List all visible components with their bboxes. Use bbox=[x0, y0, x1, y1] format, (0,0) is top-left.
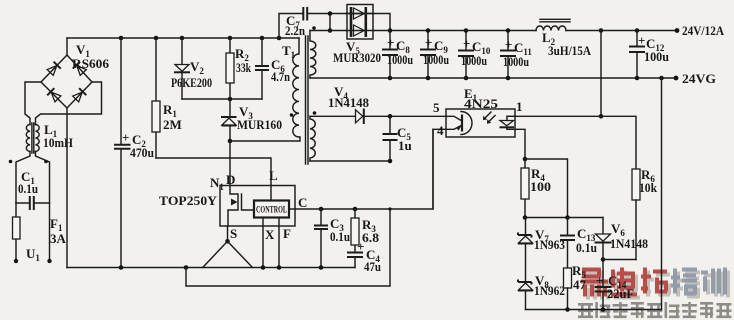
capacitor C10 1000u bbox=[458, 31, 474, 79]
node C9 top bbox=[426, 28, 431, 33]
svg-text:TOP250Y: TOP250Y bbox=[159, 193, 218, 208]
svg-text:C: C bbox=[298, 195, 307, 210]
node: C13 branch bbox=[565, 215, 570, 220]
node: R3 top bbox=[353, 207, 358, 212]
opto phototransistor bbox=[446, 112, 472, 135]
capacitor C14 22uF bbox=[595, 260, 612, 310]
svg-text:6.8: 6.8 bbox=[362, 230, 380, 245]
node: rectified output junction bbox=[388, 28, 393, 33]
svg-text:D: D bbox=[226, 172, 235, 187]
node: V3 top junction bbox=[228, 97, 233, 102]
terminal: AC input left bbox=[14, 259, 18, 263]
bridge diode top-right bbox=[73, 62, 87, 76]
svg-text:0.1u: 0.1u bbox=[330, 229, 350, 244]
svg-text:100: 100 bbox=[530, 179, 551, 194]
transformer T1 primary winding bbox=[293, 38, 299, 137]
capacitor C4 47u electrolytic bbox=[347, 253, 363, 268]
node: link bottom bbox=[328, 28, 333, 33]
opto LED bbox=[483, 112, 514, 129]
wire: secondary top to anode bus bbox=[310, 30, 346, 32]
capacitor C8 1000u bbox=[382, 31, 398, 79]
wire: S leg right bbox=[228, 241, 253, 267]
wire: link between top bus and anode bus bbox=[329, 14, 331, 31]
inductor L2 3uH/15A bbox=[536, 19, 570, 30]
phasing dot choke left bbox=[9, 160, 13, 164]
svg-text:0.1u: 0.1u bbox=[576, 240, 597, 255]
svg-text:100u: 100u bbox=[644, 49, 669, 64]
phasing dot secondary bbox=[312, 26, 316, 30]
wire: ground to 24VG terminal bbox=[637, 77, 676, 79]
node: R5 bottom bbox=[565, 307, 570, 312]
svg-text:1: 1 bbox=[516, 99, 523, 114]
watermark grey slogan line bbox=[578, 302, 731, 318]
wire: secondary ground rail bbox=[310, 77, 637, 79]
inductor L1 common-mode choke left winding bbox=[26, 125, 30, 152]
svg-text:+: + bbox=[463, 36, 470, 51]
node: C2 top on rail bbox=[119, 36, 124, 41]
svg-text:+: + bbox=[425, 35, 432, 50]
wire: C pin bus bbox=[295, 129, 446, 209]
capacitor C1 (X-cap across line) bbox=[16, 196, 50, 210]
svg-text:L: L bbox=[269, 168, 278, 183]
inductor L1 common-mode choke right winding bbox=[36, 125, 40, 152]
diode V6 1N4148 bbox=[595, 218, 612, 260]
wire: bias winding return bbox=[310, 160, 390, 162]
watermark blue-grey text pei xun bbox=[671, 268, 727, 296]
node: opto anode junction bbox=[599, 114, 604, 119]
resistor R2 33k bbox=[226, 38, 234, 99]
wire: drain junction down to D pin bbox=[229, 141, 231, 186]
wire: rectifier to output rail bbox=[374, 30, 536, 32]
TVS V2 P6KE200 bbox=[174, 38, 190, 99]
svg-text:5: 5 bbox=[433, 100, 440, 115]
svg-text:470u: 470u bbox=[130, 145, 154, 160]
terminal 24V/12A bbox=[675, 28, 680, 33]
node C8 bottom bbox=[388, 76, 393, 81]
phasing dot primary bbox=[290, 113, 294, 117]
svg-text:2.2n: 2.2n bbox=[285, 23, 306, 38]
transformer T1 secondary winding bbox=[310, 31, 316, 79]
svg-text:24V/12A: 24V/12A bbox=[682, 23, 725, 38]
zener V7 1N963 bbox=[518, 218, 533, 282]
node: C5 top bbox=[388, 114, 393, 119]
node: S junction bbox=[225, 239, 230, 244]
wire: pin2 cathode out right and down bbox=[507, 129, 525, 159]
node C9 bottom bbox=[426, 76, 431, 81]
optocoupler E1 4N25 box bbox=[446, 109, 515, 137]
wire: opto emitter drop (pin4) bbox=[432, 129, 434, 209]
node: C6 top on rail bbox=[260, 36, 265, 41]
wire: S pin bbox=[227, 226, 229, 241]
terminal: AC input right bbox=[47, 259, 51, 263]
svg-text:3A: 3A bbox=[50, 231, 67, 246]
svg-text:P6KE200: P6KE200 bbox=[171, 75, 212, 90]
svg-text:10k: 10k bbox=[639, 180, 658, 195]
node: C12 top bbox=[635, 28, 640, 33]
svg-text:24VG: 24VG bbox=[682, 71, 716, 86]
svg-text:RS606: RS606 bbox=[72, 56, 110, 71]
svg-text:4.7n: 4.7n bbox=[271, 69, 291, 84]
resistor R3 6.8 bbox=[351, 209, 359, 252]
wire: output rail after L2 bbox=[566, 30, 677, 32]
node: R4 bottom bbox=[523, 215, 528, 220]
node: C3 top bbox=[319, 207, 324, 212]
node: R4 top junction bbox=[523, 157, 528, 162]
svg-text:1u: 1u bbox=[398, 138, 412, 153]
node C11 top bbox=[506, 28, 511, 33]
wire: AC right lead from terminal up to C1 node bbox=[49, 203, 51, 261]
node: R1 top on rail bbox=[154, 36, 159, 41]
bridge rectifier V1 RS606 diamond bbox=[41, 55, 92, 108]
node: X on rail bbox=[261, 265, 266, 270]
svg-text:CONTROL: CONTROL bbox=[256, 205, 287, 215]
svg-text:33k: 33k bbox=[236, 60, 252, 75]
svg-text:+: + bbox=[596, 273, 603, 288]
mosfet Q internal of TOP250Y bbox=[228, 186, 254, 227]
diode V3 MUR160 bbox=[221, 99, 237, 141]
svg-text:+: + bbox=[387, 35, 394, 50]
svg-text:S: S bbox=[230, 226, 237, 241]
watermark shadow bbox=[584, 271, 730, 300]
resistor R5 47 bbox=[564, 268, 572, 310]
bridge diode bottom-right bbox=[72, 88, 86, 102]
node C10 bottom bbox=[464, 76, 469, 81]
wire: source return lower rail bbox=[186, 209, 390, 286]
IC U TOP250Y box bbox=[220, 186, 295, 227]
wire: C7 to rectifier top bus bbox=[330, 14, 390, 31]
zener V8 1N962 bbox=[518, 280, 533, 310]
wire: cathode node over to C13 branch bbox=[525, 159, 568, 218]
svg-text:+: + bbox=[357, 239, 364, 254]
svg-text:47: 47 bbox=[573, 277, 587, 292]
svg-text:1000u: 1000u bbox=[387, 52, 413, 67]
wire: right lead C1 node up to choke bbox=[36, 152, 50, 204]
svg-text:22uF: 22uF bbox=[607, 286, 634, 301]
capacitor C13 0.1u bbox=[560, 218, 575, 269]
svg-text:1000u: 1000u bbox=[423, 52, 449, 67]
node: sense drop on ground wire bbox=[659, 76, 664, 81]
node: V6 anode junction bbox=[601, 257, 606, 262]
svg-text:X: X bbox=[265, 227, 275, 242]
wire: drain junction to primary winding bottom bbox=[230, 137, 300, 141]
wire: S leg left bbox=[203, 241, 228, 267]
svg-text:+: + bbox=[638, 33, 645, 48]
wire: X pin bbox=[262, 218, 264, 268]
svg-text:MUR160: MUR160 bbox=[237, 117, 282, 132]
wire: V6 junction to R6 leg bbox=[603, 259, 636, 261]
wire: bridge top vertex to DC top rail bbox=[66, 38, 68, 55]
capacitor C6 4.7n bbox=[255, 38, 269, 99]
svg-text:1000u: 1000u bbox=[461, 53, 487, 68]
bridge diode bottom-left bbox=[47, 88, 61, 102]
wire: AC left lead from terminal up to C1 node bbox=[15, 203, 17, 261]
transformer T1 bias winding bbox=[310, 116, 315, 161]
node: C14 bottom bbox=[601, 307, 606, 312]
node C11 bottom bbox=[506, 76, 511, 81]
capacitor C2 bulk electrolytic bbox=[114, 38, 131, 268]
node: C3 bottom on rail bbox=[319, 265, 324, 270]
wire: 24V feedback drop to opto anode bbox=[600, 31, 602, 117]
transformer T1 core bbox=[306, 36, 309, 164]
node: lower-rail tie on rail bbox=[184, 265, 189, 270]
svg-text:0.1u: 0.1u bbox=[18, 181, 38, 196]
diode V4 1N4148 bbox=[310, 109, 390, 125]
svg-text:1N962: 1N962 bbox=[534, 283, 565, 298]
wire: choke right top via jog to bridge right vertex bbox=[36, 82, 102, 125]
resistor R6 10k bbox=[632, 169, 640, 260]
node: drain junction bbox=[228, 139, 233, 144]
capacitor C3 0.1u bbox=[314, 209, 328, 268]
wire: anode bus to R6 drop bbox=[515, 116, 636, 169]
rectifier V5 MUR3020 dual diode bbox=[346, 5, 374, 40]
wire: sense bottom rail bbox=[526, 309, 662, 311]
resistor R1 2M bbox=[152, 38, 160, 158]
wire: bridge bottom vertex down to primary bottom rail bbox=[66, 108, 68, 268]
wire: DC top rail bbox=[67, 37, 299, 39]
svg-text:1N4148: 1N4148 bbox=[328, 95, 369, 110]
svg-text:F: F bbox=[283, 226, 291, 241]
fuse F1 bbox=[13, 217, 21, 239]
bridge diode top-left bbox=[47, 62, 61, 76]
node: R2 top on rail bbox=[228, 36, 233, 41]
capacitor C5 1u bbox=[383, 116, 398, 161]
inductor L1 choke core lines bbox=[32, 123, 34, 153]
svg-text:1N4148: 1N4148 bbox=[610, 236, 648, 251]
capacitor C9 1000u bbox=[420, 31, 436, 79]
svg-text:2M: 2M bbox=[163, 117, 182, 132]
watermark red text yi di tuo bbox=[581, 268, 668, 297]
wire: primary bottom rail bbox=[67, 267, 355, 269]
svg-text:1000u: 1000u bbox=[503, 54, 529, 69]
node: link top bbox=[328, 11, 333, 16]
svg-text:MUR3020: MUR3020 bbox=[333, 50, 381, 65]
svg-text:+: + bbox=[505, 37, 512, 52]
wire: left lead C1 node up to choke bbox=[16, 152, 30, 204]
wire: F pin bbox=[278, 218, 280, 268]
svg-text:4: 4 bbox=[437, 123, 444, 138]
resistor R4 100 bbox=[521, 159, 529, 218]
wire: sense network right edge bbox=[661, 78, 663, 310]
wire: pin1 inside to anode bus handled above bbox=[507, 115, 515, 117]
svg-text:10mH: 10mH bbox=[43, 135, 73, 150]
wire: clamp bottom rail bbox=[182, 98, 262, 100]
node: C7 branch on rail bbox=[277, 36, 282, 41]
node: C2 bottom on rail bbox=[119, 265, 124, 270]
wire: zener sense bus bbox=[526, 217, 604, 219]
wire: C pin from control to right bbox=[289, 208, 295, 210]
node C10 top bbox=[464, 28, 469, 33]
capacitor C11 1000u bbox=[500, 31, 516, 79]
node: C5 return crossing bbox=[388, 207, 391, 210]
wire: R1 bottom to L pin of TOP250Y bbox=[156, 158, 271, 186]
wire: pin5 to C5 node bbox=[390, 115, 446, 117]
wire: choke left top to bridge left vertex bbox=[25, 82, 41, 125]
svg-text:+: + bbox=[122, 130, 129, 145]
node: F on rail bbox=[277, 265, 282, 270]
wire: L pin into control top bbox=[270, 186, 272, 201]
phasing dot bias winding bbox=[313, 111, 317, 115]
node: V2 top on rail bbox=[180, 36, 185, 41]
capacitor C7 2.2n snubber bbox=[279, 7, 330, 38]
node: feedback tap on output rail bbox=[599, 28, 604, 33]
capacitor C12 100u bbox=[629, 31, 645, 79]
svg-text:4N25: 4N25 bbox=[464, 96, 499, 111]
terminal 24VG bbox=[674, 76, 679, 81]
svg-text:47u: 47u bbox=[364, 259, 381, 274]
node: C12 bottom bbox=[635, 76, 640, 81]
node: bias return junction bbox=[388, 159, 393, 164]
svg-text:3uH/15A: 3uH/15A bbox=[548, 43, 592, 58]
control block CONTROL bbox=[254, 201, 289, 218]
phasing dot choke right bbox=[44, 160, 48, 164]
